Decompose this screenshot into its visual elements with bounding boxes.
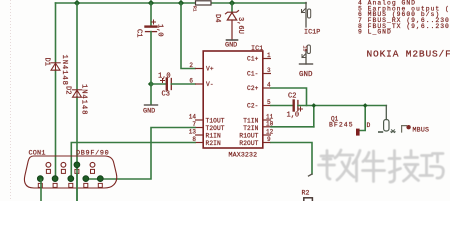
wire second vertical (D2 net to bottom edge) <box>76 3 78 89</box>
wire C1 bottom lead to junction <box>150 32 152 84</box>
wire DB9 pin1 down <box>40 179 42 201</box>
DB9 top row pin 9 <box>90 162 95 167</box>
IC pin stubs right <box>263 59 271 143</box>
IC pin labels inside <box>206 56 259 147</box>
DB9 bottom row pin 3 <box>68 176 74 182</box>
wire junction down to GND <box>150 84 152 105</box>
wire top power rail <box>56 2 307 4</box>
capacitor C1 1,0 polarized <box>146 20 157 32</box>
wire V+ riser to pin2 <box>181 3 195 69</box>
char ruan (soft) <box>319 150 355 180</box>
DB9 top row pin 8 (connected) <box>74 162 80 168</box>
wire pin5 to C2 <box>271 105 293 107</box>
page fold dotted line <box>10 0 12 201</box>
wire T2OUT pin7 to DB9 pins 4/5 <box>86 128 195 180</box>
connector CON1 DB9F/90 outline <box>24 156 116 188</box>
char jian (item) <box>353 151 385 182</box>
node junction rail x232 <box>229 0 235 6</box>
node junction C3/GND <box>148 81 154 87</box>
diode D4 zener 3,6U <box>231 3 233 12</box>
wire R2IN pin8 to DB9 pin3 <box>71 143 195 179</box>
power part IC1P pin16 VCC <box>305 3 307 28</box>
capacitor C3 1,0 polarized <box>151 83 166 85</box>
text nokia pinout list <box>358 0 450 36</box>
node junction rail x181 <box>178 0 184 6</box>
label MBUS flag <box>402 126 407 132</box>
wire D2 net overlay through connector <box>76 168 78 201</box>
wire C1 top lead <box>150 3 152 26</box>
wire C3 to pin6 <box>171 83 195 85</box>
power part IC1P pin15 GND <box>307 45 310 54</box>
diode D2 1N4148 <box>72 90 81 97</box>
DB9 bottom row pin 1 <box>37 176 43 182</box>
wire C2 to Q1 drain / pad <box>298 105 386 107</box>
connector pad SV1 <box>385 106 387 120</box>
capacitor C2 1,0 <box>294 101 303 112</box>
DB9 bottom row pin 2 <box>52 176 58 182</box>
node junction rail x77 <box>74 0 80 6</box>
wire R2OUT pin9 down <box>271 143 312 175</box>
DB9 top row pin 6 <box>46 162 51 167</box>
op-amp U1 / IC MAX3232 box <box>203 51 263 148</box>
node junction Q1 drain branch <box>363 103 368 108</box>
node junction rail x151 <box>148 0 154 6</box>
char qiao (craft) <box>420 154 443 179</box>
ground GND below IC1P <box>300 63 313 65</box>
ground GND below D4 <box>227 39 238 41</box>
IC pin stubs left <box>195 69 203 143</box>
IC pin numbers <box>189 52 274 143</box>
DB9 bottom row pin 5 <box>97 176 103 182</box>
transistor Q1 BF245 <box>360 106 365 131</box>
wire T2IN pin10 <box>271 126 314 128</box>
wire branch down to T2IN <box>313 106 315 127</box>
diode D1 1N4148 <box>51 63 60 70</box>
DB9 top row pin 7 <box>61 162 66 167</box>
wire left vertical to DB9 pin2 <box>55 3 57 62</box>
resistor R1 <box>196 1 212 5</box>
DB9 bottom row pin 4 <box>83 176 89 182</box>
capacitor C2 loop pin4 <box>271 88 307 106</box>
node junction C2 branch <box>311 103 316 108</box>
ground GND below C3 junction <box>145 104 158 106</box>
char ji (skill) <box>389 151 419 183</box>
